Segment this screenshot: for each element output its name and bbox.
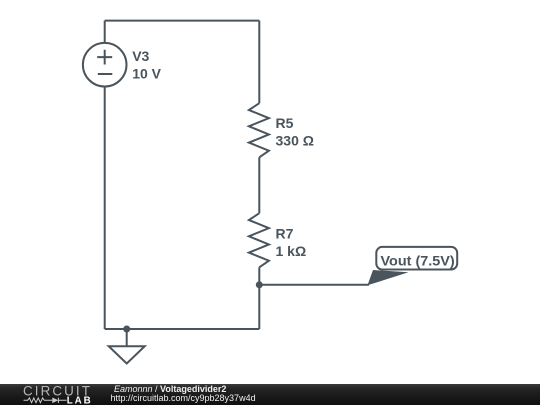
svg-text:V3: V3: [132, 48, 149, 64]
circuitlab logo: [0, 384, 100, 405]
footer url text: [111, 394, 256, 403]
node ground dot: [123, 326, 130, 333]
wire V3 top stub: [104, 21, 106, 43]
flag Vout box: [376, 247, 457, 270]
wire R7 to bottom: [258, 267, 260, 329]
resistor R7: [249, 213, 269, 267]
wire Vout horizontal: [259, 284, 369, 286]
svg-text:Vout (7.5V): Vout (7.5V): [381, 252, 455, 268]
svg-text:330 Ω: 330 Ω: [276, 133, 314, 149]
wire left vertical: [104, 87, 106, 330]
svg-text:1 kΩ: 1 kΩ: [276, 243, 307, 259]
resistor R5: [249, 103, 269, 157]
voltage source V3: [83, 43, 127, 87]
flag Vout tail: [368, 270, 409, 285]
wire top horizontal: [105, 20, 260, 22]
footer bar: [0, 384, 540, 405]
wire R5 to R7: [258, 157, 260, 213]
ground: [109, 346, 145, 363]
wire right vertical to R5: [258, 21, 260, 104]
svg-text:10 V: 10 V: [132, 66, 161, 82]
ground stub wire: [126, 329, 128, 346]
wire bottom horizontal: [105, 328, 260, 330]
svg-text:LAB: LAB: [67, 396, 93, 405]
svg-text:R5: R5: [276, 115, 294, 131]
svg-text:R7: R7: [276, 226, 294, 242]
node junction dot: [256, 281, 263, 288]
footer title text: [114, 385, 226, 394]
